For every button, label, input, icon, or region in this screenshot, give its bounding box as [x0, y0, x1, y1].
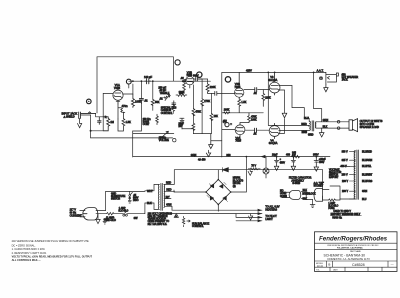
- text tap labels right: [362, 152, 373, 201]
- wire riser to interlock: [322, 170, 324, 190]
- wire secondary GRN: [316, 121, 349, 123]
- jack J2 external speaker: [319, 72, 338, 84]
- tube V3 6AQ5A: [269, 72, 280, 95]
- ground arrow jack shield: [78, 118, 82, 127]
- wire column x152.8: [152, 81, 154, 110]
- text special design: [161, 107, 177, 115]
- resistor R11 10K: [210, 113, 218, 120]
- svg-text:C#8528: C#8528: [352, 263, 365, 267]
- svg-text:TOL.: TOL.: [316, 270, 320, 272]
- input jack J1: [62, 112, 96, 119]
- text speaker output: [360, 120, 383, 129]
- resistor R12 cathode V2B: [238, 99, 247, 112]
- svg-text:VOLUME: VOLUME: [159, 139, 170, 142]
- wire secondary BLK: [316, 127, 349, 129]
- wire B+ rail y156.6: [133, 156, 330, 158]
- svg-text:BLK: BLK: [147, 202, 152, 205]
- svg-text:LIGHT: LIGHT: [265, 218, 273, 221]
- svg-text:INTERLOCK: INTERLOCK: [302, 193, 316, 195]
- svg-text:DISC: DISC: [133, 200, 139, 202]
- wire corridor y112.8: [222, 112, 263, 114]
- resistor R8 470K: [192, 109, 201, 116]
- svg-text:RE 7.5A 125V S.B.: RE 7.5A 125V S.B.: [148, 223, 168, 226]
- resistor R9: [192, 123, 195, 130]
- svg-text:—: —: [391, 263, 394, 267]
- svg-text:.02: .02: [159, 97, 163, 100]
- svg-text:2. RESISTORS ½ WATT ±10%.: 2. RESISTORS ½ WATT ±10%.: [12, 251, 47, 255]
- text rail label 470: [246, 69, 252, 72]
- svg-text:600V: 600V: [193, 74, 199, 77]
- arrows heaters: [258, 209, 262, 215]
- svg-text:CBS MUSICAL INSTRUMENTS A DIVI: CBS MUSICAL INSTRUMENTS A DIVISION OF CB…: [327, 244, 379, 247]
- svg-text:1.5K: 1.5K: [126, 121, 131, 124]
- transformer T1 secondary export stack: [354, 150, 358, 199]
- svg-text:250 V: 250 V: [342, 174, 348, 176]
- lamp pilot circle-X: [263, 157, 269, 178]
- svg-text:GRN: GRN: [166, 204, 172, 207]
- wire B+ preamp rail y81: [129, 80, 211, 82]
- title block: [315, 232, 398, 272]
- resistor R15 220K grid V3: [262, 90, 271, 107]
- capacitor C7 500pF: [223, 120, 227, 125]
- wire bridge top: [217, 170, 219, 180]
- svg-text:A.C. "ON": A.C. "ON": [314, 182, 324, 185]
- svg-text:7025: 7025: [186, 73, 192, 77]
- svg-text:GRN: GRN: [362, 191, 367, 193]
- text bridge diodes: [233, 177, 244, 188]
- svg-text:56K: 56K: [155, 101, 160, 104]
- wire vertical x202.1: [198, 79, 202, 134]
- wire tap300 left run: [340, 165, 349, 167]
- ground ext jack: [324, 84, 328, 91]
- wire long vertical x221.8: [221, 72, 223, 157]
- speaker SP1: [349, 119, 358, 132]
- arrows pilot: [258, 216, 262, 222]
- text filter cap assembly: [289, 177, 312, 185]
- wire primary top: [151, 184, 158, 190]
- text 117V: [70, 208, 83, 217]
- svg-text:BLU/RED: BLU/RED: [362, 152, 372, 154]
- potentiometer hum balance: [182, 216, 209, 228]
- ground earth interlock: [306, 199, 315, 207]
- node junctions rail: [246, 156, 318, 158]
- svg-text:CONTROL: CONTROL: [192, 225, 204, 228]
- node junction dot: [90, 130, 92, 132]
- svg-text:R: R: [105, 116, 107, 119]
- svg-text:△ SHIELD: △ SHIELD: [64, 116, 75, 119]
- transformer T1 power: [159, 183, 165, 210]
- resistor R3 1.5K cathode: [118, 112, 131, 131]
- svg-text:4A 450: 4A 450: [198, 158, 206, 161]
- svg-text:SWITCH: SWITCH: [111, 199, 120, 201]
- wire V4 plate to OT: [279, 129, 309, 131]
- wire plug top branch: [96, 191, 151, 211]
- tube V4 6AQ5A: [269, 123, 280, 145]
- svg-text:22-41: 22-41: [317, 266, 324, 268]
- wire grid to V1A: [103, 92, 113, 94]
- diode D5 series: [222, 168, 228, 172]
- svg-text:(T): (T): [319, 77, 322, 80]
- svg-text:25V: 25V: [178, 125, 183, 128]
- tube V1B 7025: [186, 70, 194, 88]
- wire V2A grid: [222, 129, 235, 131]
- wire bridge left: [174, 190, 206, 192]
- svg-text:SLO-BLO: SLO-BLO: [106, 220, 116, 222]
- capacitor C9 .02: [253, 128, 257, 135]
- text tap labels left: [341, 152, 349, 194]
- filter cap C10 20uF: [272, 153, 285, 170]
- text to heaters: [265, 206, 280, 212]
- connector interlock: [280, 182, 324, 201]
- text voltage selector: [329, 168, 342, 179]
- svg-text:BLK: BLK: [303, 190, 308, 192]
- svg-text:230 V: 230 V: [342, 181, 348, 183]
- capacitor C plate-decouple on rail: [144, 75, 153, 84]
- wire tip branch: [96, 113, 104, 116]
- wire socket right up: [323, 189, 329, 191]
- capacitor C5 cathode 25uF V1B: [178, 118, 193, 129]
- svg-text:50/60 Hz: 50/60 Hz: [332, 217, 342, 220]
- svg-text:CHNG PRIMARY TO: CHNG PRIMARY TO: [148, 220, 170, 223]
- svg-text:SOCKET: SOCKET: [314, 186, 324, 188]
- svg-text:CONN: CONN: [280, 196, 287, 198]
- node circled ref 1: [87, 99, 92, 104]
- text ext speaker: [342, 73, 359, 81]
- svg-text:SW: SW: [134, 217, 139, 220]
- resistor R4 56K: [151, 99, 159, 105]
- svg-text:SCHEMATIC - BANTAM-30: SCHEMATIC - BANTAM-30: [324, 253, 366, 257]
- taps export: [349, 152, 355, 199]
- svg-text:Fender/Rogers/Rhodes: Fender/Rogers/Rhodes: [319, 236, 388, 243]
- svg-text:470Ω: 470Ω: [122, 105, 128, 108]
- wire OT center tap: [268, 124, 309, 127]
- svg-text:.02: .02: [144, 99, 148, 102]
- wire riser CT x268.3: [267, 72, 269, 125]
- node circled ref 2: [175, 60, 180, 65]
- resistor R17 bias feed: [248, 165, 260, 170]
- bridge rectifier D1-D4: [205, 179, 231, 206]
- svg-text:CONT: CONT: [143, 123, 150, 126]
- svg-text:270K: 270K: [204, 100, 210, 103]
- svg-text:100K: 100K: [224, 109, 230, 112]
- svg-text:ALL CONTROLS MAX.....: ALL CONTROLS MAX.....: [12, 259, 42, 262]
- svg-text:+: +: [280, 159, 282, 161]
- fuse F2 export: [323, 196, 340, 210]
- capacitor C4 small: [172, 101, 176, 107]
- wire V3 plate to OT: [279, 85, 309, 121]
- svg-text:HEATERS: HEATERS: [265, 209, 277, 212]
- svg-text:S-8528: S-8528: [292, 182, 300, 185]
- wire V2A plate to V4: [245, 129, 270, 131]
- wire plate to 220K: [200, 79, 208, 84]
- svg-text:BLU: BLU: [304, 117, 309, 120]
- wire switch to PT: [129, 203, 153, 214]
- node connector circles: [337, 121, 340, 130]
- capacitor C6 coupling V1B: [193, 74, 200, 81]
- text to pilot light: [265, 215, 277, 221]
- svg-text:100K: 100K: [251, 118, 257, 121]
- svg-text:BLK: BLK: [323, 125, 328, 128]
- svg-text:MODEL: MODEL: [316, 263, 324, 265]
- wire column x141.5: [133, 81, 142, 131]
- filter cap C11 20uF: [291, 157, 295, 171]
- ground plug: [96, 219, 109, 224]
- svg-text:CURRENT: CURRENT: [70, 214, 83, 217]
- wire V2B grid: [222, 92, 235, 94]
- wire ext spk drop: [314, 72, 322, 121]
- svg-text:RED: RED: [166, 189, 171, 192]
- heater rail pair: [166, 210, 262, 213]
- svg-text:7025: 7025: [235, 139, 241, 143]
- svg-text:GRD: GRD: [308, 134, 314, 137]
- svg-text:460: 460: [286, 154, 291, 157]
- wire secondary taps: [165, 170, 175, 211]
- svg-text:GRN: GRN: [191, 154, 197, 157]
- svg-text:FUSE: FUSE: [328, 208, 335, 210]
- tube V2B 7025: [234, 72, 244, 99]
- svg-text:415V: 415V: [246, 69, 252, 72]
- svg-text:A.A.T.: A.A.T.: [317, 68, 324, 72]
- svg-text:240 VERSION USE JUMPER FOR PLU: 240 VERSION USE JUMPER FOR PLUG WIRING O…: [12, 240, 89, 243]
- svg-text:450V: 450V: [319, 161, 325, 164]
- ground arrow on rail w text: [198, 150, 211, 161]
- filter cap C12 20uF: [314, 157, 326, 172]
- svg-text:(1 AMP): (1 AMP): [106, 217, 115, 220]
- svg-text:1.5K: 1.5K: [241, 101, 246, 104]
- ground arrow mid: [209, 134, 222, 149]
- svg-text:450V: 450V: [280, 163, 286, 165]
- treble network box text: [158, 86, 169, 95]
- svg-text:1 AMP: 1 AMP: [119, 207, 126, 210]
- wire primary bottom: [152, 203, 158, 209]
- capacitor C2 cathode bypass 25uF w resistor 470: [116, 101, 128, 119]
- svg-text:DC = ZERO SIGNAL.: DC = ZERO SIGNAL.: [12, 244, 36, 247]
- switch SW1: [118, 207, 138, 220]
- resistor R1 1M grid: [103, 116, 114, 131]
- svg-text:100 μF: 100 μF: [144, 75, 153, 79]
- svg-text:EXPORT: EXPORT: [329, 177, 339, 179]
- svg-text:GRN: GRN: [323, 119, 329, 122]
- cathode network V1B: [179, 77, 186, 95]
- transformer T2 output: [301, 117, 316, 136]
- svg-text:BRN: BRN: [302, 131, 307, 134]
- node junction: [267, 72, 314, 74]
- fuse F1: [101, 213, 122, 223]
- resistor R2 100K plate: [131, 94, 141, 108]
- resistor R16 series rail: [291, 152, 299, 158]
- wire bass bottom bus: [133, 131, 174, 157]
- svg-text:DATE: DATE: [333, 269, 338, 272]
- wire ground bus: [91, 137, 173, 139]
- svg-text:DOMESTIC J.A. ALTERNATE 117V: DOMESTIC J.A. ALTERNATE 117V: [328, 257, 371, 261]
- wire bottom bus mid: [193, 133, 211, 135]
- svg-text:.02: .02: [253, 133, 257, 136]
- wire vertical x193.4: [192, 85, 194, 134]
- resistor R5 100K slope: [176, 91, 187, 96]
- svg-text:10K: 10K: [214, 115, 219, 118]
- svg-text:360: 360: [226, 154, 231, 157]
- svg-text:R/Y: R/Y: [166, 196, 170, 199]
- notes text block: [12, 240, 93, 262]
- wire cathodes to ground: [279, 90, 285, 133]
- ground OT secondary: [319, 128, 324, 137]
- wire export bottom left: [330, 186, 355, 199]
- text GRN label: [191, 154, 197, 157]
- warning triangle A: [174, 214, 178, 218]
- svg-text:RED: RED: [166, 182, 171, 185]
- resistor R14 470K plate feed: [240, 113, 257, 123]
- svg-text:SPEAKER LOAD: SPEAKER LOAD: [360, 126, 380, 129]
- svg-text:200 V: 200 V: [342, 191, 348, 193]
- text 470V: [286, 154, 319, 157]
- wire bridge right to B+: [231, 157, 247, 192]
- svg-text:1M: 1M: [110, 121, 113, 124]
- wire w coupling cap to V2B grid: [208, 91, 222, 95]
- arrow NFB on rail: [260, 155, 265, 158]
- capacitor C8 .022: [253, 88, 257, 95]
- text AAT: [317, 68, 324, 72]
- potentiometer treble 250K: [159, 94, 170, 100]
- wire grid column: [91, 93, 104, 130]
- svg-text:B: B: [328, 263, 330, 267]
- node circled ref 3: [126, 79, 131, 88]
- text 360 label: [226, 154, 231, 157]
- svg-text:BLU: BLU: [362, 199, 367, 201]
- wire top-left loop: [97, 57, 173, 113]
- wire diode line y169.7: [174, 169, 322, 171]
- potentiometer volume arrow: [159, 131, 170, 142]
- wire bridge bottom: [217, 205, 219, 212]
- svg-text:1 AMP: 1 AMP: [328, 202, 335, 205]
- svg-text:BLU/WHT: BLU/WHT: [362, 174, 373, 176]
- svg-text:LOAD: LOAD: [280, 192, 287, 195]
- svg-text:350 V: 350 V: [342, 152, 348, 154]
- labels GRN BLK: [323, 119, 329, 128]
- wire rail top B+ y72.4: [222, 71, 326, 73]
- svg-text:325 V: 325 V: [342, 160, 348, 162]
- pilot rail pair: [236, 214, 262, 221]
- wire V1A plate up: [123, 84, 133, 94]
- svg-text:SLO-BLO: SLO-BLO: [118, 210, 128, 212]
- tube V2A 7025: [235, 123, 245, 143]
- capacitor C1a small: [98, 117, 102, 125]
- ground arrow cathode: [282, 113, 287, 118]
- svg-text:7025: 7025: [114, 86, 121, 90]
- wire jack sleeve drop: [90, 115, 92, 138]
- wire vertical x211.4: [210, 93, 212, 133]
- svg-text:220K: 220K: [210, 86, 216, 89]
- svg-text:.02: .02: [253, 92, 257, 95]
- svg-text:BLU/YEL: BLU/YEL: [362, 166, 372, 168]
- wire V2B plate to V3: [244, 89, 269, 91]
- svg-text:JACK: JACK: [342, 79, 349, 82]
- resistor R10 270K: [201, 99, 211, 106]
- node circled ref V2B: [225, 77, 230, 82]
- svg-text:75 V: 75 V: [251, 165, 256, 168]
- svg-text:RED: RED: [301, 123, 306, 126]
- capacitor C3 .02: [139, 99, 148, 104]
- plug P1 AC: [80, 208, 101, 220]
- switch SW2 ground sub: [111, 191, 139, 203]
- ground arrow heater: [249, 214, 253, 220]
- svg-text:TRANS HOOKUP: TRANS HOOKUP: [148, 218, 167, 221]
- node circled ref 7: [197, 72, 202, 77]
- svg-text:FULLERTON, CALIFORNIA: FULLERTON, CALIFORNIA: [337, 246, 363, 249]
- text transformer note: [148, 212, 173, 225]
- resistor R13 100K h: [224, 109, 230, 114]
- wire V1B plate: [194, 78, 196, 80]
- svg-text:BLU/ORG: BLU/ORG: [362, 181, 373, 183]
- resistor R7 220K: [206, 84, 216, 93]
- svg-text:470K: 470K: [195, 110, 201, 113]
- svg-text:CONTROL: CONTROL: [161, 112, 173, 115]
- potentiometer bass 250K: [172, 103, 175, 114]
- text export version: [330, 211, 361, 220]
- svg-text:56K: 56K: [179, 92, 184, 95]
- ground arrow right of bridge: [248, 170, 252, 176]
- svg-text:7025: 7025: [234, 85, 240, 89]
- svg-text:6AQ5A: 6AQ5A: [269, 141, 278, 145]
- text bass control: [143, 118, 151, 126]
- svg-text:BLU/GRN: BLU/GRN: [362, 160, 373, 162]
- svg-text:1. CAPACITORS 600V ± 20%: 1. CAPACITORS 600V ± 20%: [12, 248, 46, 251]
- node terminal circle: [173, 139, 176, 142]
- svg-text:6AQ5A: 6AQ5A: [269, 78, 278, 82]
- svg-text:(4): (4): [233, 185, 236, 188]
- resistor R6 left of bass: [156, 114, 159, 124]
- node circled ref small: [223, 121, 232, 127]
- junction dots rail: [132, 80, 154, 82]
- tube V1A 7025: [113, 83, 123, 104]
- text WHT BLK: [147, 190, 153, 205]
